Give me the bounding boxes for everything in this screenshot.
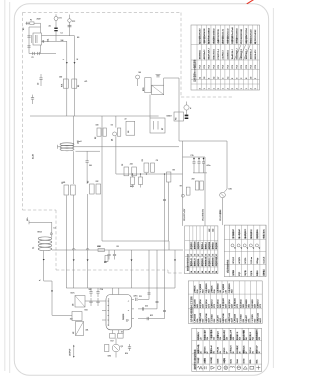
svg-text:1R0J: 1R0J <box>214 319 216 323</box>
svg-text:AC220V: AC220V <box>238 256 241 263</box>
svg-text:蓝色线+5V: 蓝色线+5V <box>194 257 197 266</box>
aux box near earth <box>174 112 184 121</box>
svg-text:400V/10uF-J: 400V/10uF-J <box>204 50 206 60</box>
svg-text:1: 1 <box>204 88 206 89</box>
wire N rail <box>42 40 67 42</box>
svg-text:4: 4 <box>251 88 253 89</box>
svg-text:灰色线NC空: 灰色线NC空 <box>204 257 207 266</box>
page background side lines <box>4 0 6 371</box>
svg-text:R17: R17 <box>111 341 114 343</box>
svg-text:R10: R10 <box>240 337 242 340</box>
svg-text:4%5J: 4%5J <box>208 289 210 293</box>
svg-text:V2: V2 <box>202 254 204 256</box>
svg-text:U26: U26 <box>233 337 235 340</box>
secondary bus y250 <box>52 249 183 251</box>
svg-text:EE10-V5H7-J: EE10-V5H7-J <box>213 49 215 59</box>
legend symbols bottom row <box>197 366 203 369</box>
svg-text:19: 19 <box>251 77 253 79</box>
svg-text:8P: 8P <box>246 351 248 353</box>
svg-text:0.1: 0.1 <box>54 228 56 230</box>
svg-text:1W2J: 1W2J <box>243 304 245 308</box>
wire y174 <box>116 173 183 175</box>
svg-text:10uH-: 10uH- <box>237 358 239 363</box>
mid comps pair below y174 <box>132 174 134 177</box>
svg-text:10K/0603J-J: 10K/0603J-J <box>199 50 201 60</box>
Y-capacitor CY2 circle <box>68 19 72 23</box>
svg-text:R9: R9 <box>173 170 175 172</box>
long primary verticals to gnd bus <box>73 195 75 288</box>
cap trio on y157 <box>183 156 206 158</box>
tick on right mid vertical <box>163 198 166 200</box>
svg-text:7-4 3Q8050: 7-4 3Q8050 <box>200 284 202 293</box>
resistor R1 <box>72 79 77 88</box>
svg-text:681: 681 <box>63 182 66 184</box>
svg-text:8P: 8P <box>207 351 209 353</box>
svg-text:1: 1 <box>209 88 211 89</box>
svg-text:蓝色线+5: 蓝色线+5 <box>204 242 207 249</box>
svg-text:2: 2 <box>255 88 257 89</box>
common-mode filter T0 box <box>33 33 42 45</box>
svg-text:431: 431 <box>86 330 89 332</box>
svg-text:CY2: CY2 <box>72 21 75 23</box>
comps pair below <box>195 181 199 190</box>
spec table B frame <box>224 225 266 277</box>
svg-text:黄色线+12: 黄色线+12 <box>190 258 193 266</box>
dashed isolation border across under table <box>181 96 232 98</box>
svg-text:AC-IN: AC-IN <box>32 153 35 159</box>
svg-text:V2: V2 <box>209 254 211 256</box>
svg-text:红色线VCC: 红色线VCC <box>208 257 211 266</box>
svg-text:-o: -o <box>128 320 129 322</box>
svg-text:NPN-80: NPN-80 <box>217 347 219 353</box>
svg-text:4: 4 <box>227 88 229 89</box>
inductor L2 stacked loops <box>60 143 74 146</box>
primary comps pair A <box>64 185 69 195</box>
svg-text:C5: C5 <box>122 164 124 166</box>
hop bumps on y250 <box>72 249 75 251</box>
svg-text:C22: C22 <box>214 337 216 340</box>
svg-text:OUTPUT: OUTPUT <box>70 348 72 356</box>
secondary gnd bus y288 <box>66 287 175 289</box>
svg-text:-o: -o <box>128 310 129 312</box>
svg-text:MB10F-SOP-J: MB10F-SOP-J <box>209 48 211 59</box>
comp inside dashed left edge <box>32 95 34 98</box>
svg-text:L: L <box>63 59 65 60</box>
sense transistor Q2 <box>115 338 117 344</box>
svg-text:R0: R0 <box>77 37 79 39</box>
svg-text:1A/250VAC-J: 1A/250VAC-J <box>250 49 253 59</box>
svg-text:104: 104 <box>61 40 64 42</box>
vertical from bus to primary comps <box>73 116 75 147</box>
svg-text:OB2263: OB2263 <box>123 314 125 320</box>
transformer T1 <box>38 237 52 240</box>
bridge rectifier BD1 cluster <box>136 75 140 79</box>
svg-text:Q1: Q1 <box>111 139 113 141</box>
fuse F1 <box>26 22 30 24</box>
svg-text:C14: C14 <box>100 289 103 291</box>
svg-text:3: 3 <box>209 78 211 79</box>
diagonal slashes in BOM cells <box>234 45 241 61</box>
TL431 box with diagonal <box>76 322 84 336</box>
svg-text:U26: U26 <box>259 337 261 340</box>
svg-text:104: 104 <box>89 165 92 167</box>
indicator lamp <box>226 141 228 189</box>
inline resistor on bus <box>98 249 105 252</box>
svg-text:11: 11 <box>199 77 201 79</box>
svg-text:TO92形: TO92形 <box>197 357 200 363</box>
svg-text:1: 1 <box>246 88 248 89</box>
svg-text:-o: -o <box>128 300 129 302</box>
cap C4 below L2 <box>86 151 88 160</box>
U1 pins bottom <box>111 330 113 334</box>
wire x102 to y241 <box>101 183 103 241</box>
U1 pins left <box>102 300 106 302</box>
svg-text:白色线FG接: 白色线FG接 <box>215 257 218 266</box>
svg-text:R15: R15 <box>125 353 128 355</box>
svg-text:XH2.54: XH2.54 <box>250 347 252 353</box>
svg-text:DC12V-: DC12V- <box>245 257 247 264</box>
svg-text:7-4 2R103: 7-4 2R103 <box>212 314 214 322</box>
U1 right pin nets <box>148 250 150 299</box>
svg-text:棕色线24: 棕色线24 <box>212 242 215 249</box>
svg-text:R1: R1 <box>78 85 80 87</box>
svg-text:1/4W5: 1/4W5 <box>217 359 219 364</box>
svg-text:4%5J: 4%5J <box>203 289 205 293</box>
Y-capacitor CY1 circle with bars <box>54 17 58 21</box>
terminal table A frame <box>185 226 218 274</box>
svg-text:T1: T1 <box>33 247 35 249</box>
svg-text:1: 1 <box>213 88 215 89</box>
svg-text:7-4 3Q8050: 7-4 3Q8050 <box>223 284 225 293</box>
legend table D frame <box>192 328 262 371</box>
svg-text:7-4 2R103: 7-4 2R103 <box>240 314 242 322</box>
svg-text:K2: K2 <box>111 125 113 127</box>
svg-text:V2: V2 <box>198 254 200 256</box>
svg-text:CCC/CE: CCC/CE <box>263 256 265 264</box>
svg-text:4V7: 4V7 <box>104 262 107 264</box>
red logo fragment <box>246 0 254 4</box>
svg-text:e2: e2 <box>259 247 261 249</box>
svg-text:C6: C6 <box>142 159 144 161</box>
svg-text:CN1-VCC+12V: CN1-VCC+12V <box>184 208 186 221</box>
svg-text:1: 1 <box>223 88 225 89</box>
svg-text:7-4 2R103: 7-4 2R103 <box>252 314 254 322</box>
svg-text:2A慢断: 2A慢断 <box>203 358 206 364</box>
svg-text:8P: 8P <box>227 351 229 353</box>
comps hanging below bus <box>108 250 110 254</box>
svg-text:白色线FG: 白色线FG <box>197 241 200 249</box>
svg-text:470u: 470u <box>207 165 211 167</box>
svg-text:1R0J: 1R0J <box>243 319 245 323</box>
polarity marks on rails <box>66 62 68 64</box>
svg-text:0R5: 0R5 <box>108 356 111 358</box>
net wire A down <box>182 141 184 222</box>
svg-text:X2-104K/3-J: X2-104K/3-J <box>227 50 229 60</box>
comps left of IC <box>90 298 92 301</box>
transformer T1 primary wire <box>29 221 52 223</box>
circle marks in table B band2 <box>231 244 234 247</box>
svg-text:黄色线+1: 黄色线+1 <box>201 242 204 249</box>
svg-text:1R0J: 1R0J <box>254 319 256 323</box>
svg-text:3: 3 <box>232 78 234 79</box>
svg-text:V2: V2 <box>191 254 193 256</box>
svg-text:绿色线SB: 绿色线SB <box>208 241 211 249</box>
svg-text:RT: RT <box>162 128 164 130</box>
svg-text:C11: C11 <box>139 296 142 298</box>
svg-text:10mH: 10mH <box>77 141 82 143</box>
caps on right pin nets <box>135 298 137 301</box>
verticals y250 to y288 right <box>174 250 176 288</box>
junction dots on y174 <box>132 173 133 174</box>
wire y141 to connector <box>179 140 227 142</box>
svg-text:XH2.54-4P-J: XH2.54-4P-J <box>255 50 257 60</box>
svg-text:2: 2 <box>241 78 243 79</box>
main bus y116 <box>30 115 159 117</box>
svg-text:3: 3 <box>237 78 239 79</box>
svg-text:e2: e2 <box>253 247 255 249</box>
svg-text:C1: C1 <box>61 33 63 35</box>
svg-text:2A慢断: 2A慢断 <box>223 358 226 364</box>
dashed isolation border bottom-left jog <box>23 209 57 211</box>
dashed isolation border left <box>22 13 24 211</box>
comps below IC <box>110 334 116 339</box>
svg-text:1W2J: 1W2J <box>249 304 251 308</box>
thermistor cluster left <box>181 194 184 197</box>
svg-text:C8: C8 <box>156 160 158 162</box>
ticks on IC feed verticals <box>148 292 151 294</box>
start-up block <box>150 118 165 133</box>
svg-text:12: 12 <box>213 77 215 79</box>
svg-text:V2: V2 <box>213 254 215 256</box>
svg-text:V2: V2 <box>195 254 197 256</box>
svg-text:4%5J: 4%5J <box>231 289 233 293</box>
input loop wires <box>28 27 30 54</box>
svg-text:PC817C-TL-J: PC817C-TL-J <box>218 49 220 59</box>
svg-text:HV+: HV+ <box>27 217 29 221</box>
earth Y-cap symbol <box>186 102 188 105</box>
svg-text:2: 2 <box>199 88 201 89</box>
cap C3 left <box>40 74 42 78</box>
svg-text:474: 474 <box>130 164 133 166</box>
svg-text:U26: U26 <box>227 337 229 340</box>
svg-text:灰色线NC: 灰色线NC <box>215 241 218 249</box>
svg-text:绿色线SB-: 绿色线SB- <box>197 258 200 266</box>
svg-text:8050-: 8050- <box>250 359 252 364</box>
svg-text:R2: R2 <box>95 137 97 139</box>
svg-text:DB107: DB107 <box>167 116 172 118</box>
T1 secondary lead down <box>43 251 45 281</box>
svg-text:EE13: EE13 <box>38 232 42 234</box>
svg-text:5R1: 5R1 <box>98 246 101 248</box>
svg-text:1R0J: 1R0J <box>203 319 205 323</box>
svg-text:103: 103 <box>96 125 99 127</box>
sheet outline <box>14 4 268 376</box>
svg-text:L47: L47 <box>201 337 203 340</box>
svg-text:U3: U3 <box>73 304 75 306</box>
op IC U1 main controller <box>106 295 132 330</box>
svg-text:C2: C2 <box>32 57 34 59</box>
svg-text:1: 1 <box>241 88 243 89</box>
svg-text:F1: F1 <box>30 19 32 21</box>
svg-text:e2: e2 <box>235 247 237 249</box>
pads into table <box>182 222 184 226</box>
svg-text:C12: C12 <box>145 306 148 308</box>
BOM table frame <box>191 25 260 90</box>
svg-text:U4: U4 <box>128 131 130 133</box>
varistor RV1 <box>63 79 68 88</box>
right-edge net wire down <box>178 78 180 141</box>
svg-text:50V10: 50V10 <box>243 359 245 364</box>
svg-text:棕色线24V: 棕色线24V <box>201 257 204 266</box>
svg-text:黑色线GN: 黑色线GN <box>194 241 197 249</box>
svg-text:R12: R12 <box>150 315 153 317</box>
svg-text:13: 13 <box>204 77 206 79</box>
svg-text:103: 103 <box>70 319 73 321</box>
svg-text:8: 8 <box>246 78 248 79</box>
svg-text:SOP8封: SOP8封 <box>210 357 213 364</box>
svg-text:4: 4 <box>237 88 239 89</box>
svg-text:Q2: Q2 <box>121 346 123 348</box>
svg-text:BD1: BD1 <box>143 88 145 92</box>
snubber cluster 2 with transistor <box>113 132 117 136</box>
svg-text:e2: e2 <box>247 247 249 249</box>
dashed isolation border right upper <box>180 13 182 98</box>
svg-text:CN1-GND-0V1: CN1-GND-0V1 <box>203 209 205 221</box>
U1 pins top <box>111 288 113 295</box>
svg-text:22: 22 <box>125 119 127 121</box>
caps on bottom loop wire <box>32 52 34 55</box>
net wire B down <box>204 157 206 222</box>
svg-text:R473: R473 <box>130 186 134 188</box>
dashed isolation border long bottom run <box>56 269 168 271</box>
svg-text:2.2nF/1kV-J: 2.2nF/1kV-J <box>223 50 225 59</box>
optocoupler U3 <box>75 296 85 308</box>
svg-text:12W ma: 12W ma <box>251 257 253 264</box>
svg-text:10uH-: 10uH- <box>230 358 232 363</box>
svg-text:DIP8/S: DIP8/S <box>224 347 226 353</box>
svg-text:222: 222 <box>96 181 99 183</box>
primary comps pair B <box>90 184 95 194</box>
svg-text:14: 14 <box>227 77 229 79</box>
wire L rail <box>42 35 75 37</box>
svg-text:2: 2 <box>255 78 257 79</box>
svg-text:R5: R5 <box>88 181 90 183</box>
caps above IC on gnd bus <box>90 288 92 291</box>
svg-text:V2: V2 <box>216 254 218 256</box>
comps on y174 <box>124 167 129 176</box>
svg-text:2: 2 <box>218 88 220 89</box>
svg-text:471: 471 <box>85 81 88 83</box>
svg-text:R21: R21 <box>85 310 88 312</box>
svg-text:C15: C15 <box>191 155 194 157</box>
notes table C frame <box>188 281 262 324</box>
dashed isolation border top <box>23 12 182 14</box>
svg-text:CY1: CY1 <box>59 18 62 20</box>
svg-text:C3: C3 <box>38 83 40 85</box>
svg-text:2: 2 <box>223 78 225 79</box>
svg-text:17: 17 <box>218 77 220 79</box>
svg-text:SP-12W: SP-12W <box>233 257 235 264</box>
comp cluster below opto <box>72 312 82 321</box>
svg-text:RV1: RV1 <box>62 84 64 87</box>
svg-text:U2: U2 <box>73 332 75 334</box>
svg-text:85%typ: 85%typ <box>256 258 259 264</box>
svg-text:10mH/0.5A-J: 10mH/0.5A-J <box>231 49 234 59</box>
svg-text:D8: D8 <box>117 246 119 248</box>
aux IC box <box>126 121 135 135</box>
svg-text:V2: V2 <box>205 254 207 256</box>
svg-text:D41: D41 <box>246 337 248 340</box>
svg-text:2: 2 <box>232 88 234 89</box>
svg-text:8050-: 8050- <box>256 359 258 364</box>
svg-text:e2: e2 <box>241 247 243 249</box>
snubber cluster 1 <box>97 128 101 136</box>
svg-text:黑色线GND: 黑色线GND <box>212 257 215 267</box>
svg-text:红色线VC: 红色线VC <box>190 241 193 249</box>
